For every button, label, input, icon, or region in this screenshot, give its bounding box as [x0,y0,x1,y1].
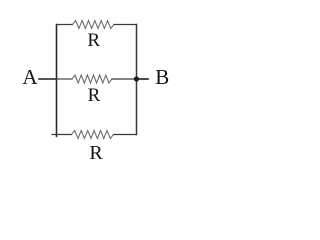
wire: middle branch right lead [112,78,137,80]
wire: bottom branch right lead [114,134,137,136]
wire: stub to node B [137,78,149,80]
wire: right vertical rail [136,25,138,135]
wire: top branch right lead [114,24,137,26]
wire: top branch left lead [57,24,73,26]
svg-text:A: A [22,65,38,89]
resistor R (top branch) [73,21,115,29]
svg-text:R: R [89,142,103,164]
svg-text:B: B [155,65,169,89]
junction dot at node B rail [134,76,139,81]
wire: middle branch left lead [57,78,73,80]
svg-text:R: R [87,30,100,51]
resistor R (bottom branch) [72,131,114,139]
resistor R (middle branch) [72,75,112,83]
wire: left vertical rail [56,25,58,137]
wire: bottom branch left lead (with small overshoot) [52,134,72,136]
svg-text:R: R [88,85,101,106]
wire: stub from node A [39,78,57,80]
